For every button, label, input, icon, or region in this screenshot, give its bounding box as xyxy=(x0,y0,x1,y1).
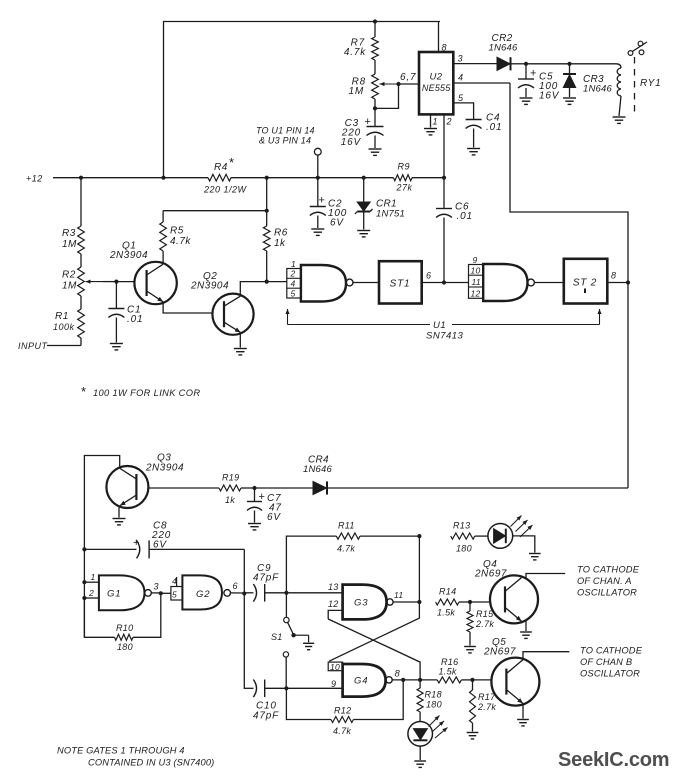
svg-text:OF CHAN B: OF CHAN B xyxy=(580,657,632,667)
node INPUT xyxy=(18,341,81,351)
svg-text:4.7k: 4.7k xyxy=(337,544,355,554)
svg-text:180: 180 xyxy=(117,642,133,652)
svg-text:8: 8 xyxy=(395,669,401,680)
wire ST2 node down to CR4 xyxy=(627,283,629,489)
svg-text:1: 1 xyxy=(291,259,297,269)
resistor R1 xyxy=(53,309,84,346)
wire R3-R2-R1 chain riser xyxy=(80,178,82,226)
resistor R16 xyxy=(437,657,474,683)
node +12 label xyxy=(26,174,43,184)
svg-text:.01: .01 xyxy=(457,211,473,222)
diode CR2 xyxy=(489,33,527,70)
zener CR1 xyxy=(355,178,405,230)
ground below C3 xyxy=(369,149,382,155)
ground below Q4 xyxy=(520,632,532,638)
resistor R4 xyxy=(203,155,248,195)
label chan A xyxy=(577,565,640,598)
nand gate U1b input pins 9,10,11,12 xyxy=(469,255,484,299)
svg-text:4.7k: 4.7k xyxy=(333,726,351,736)
wire Q4 emitter xyxy=(525,620,527,631)
transistor Q5 xyxy=(483,637,539,706)
ground below pin 1 xyxy=(424,129,437,135)
diode CR4 xyxy=(303,455,628,495)
wire G1 out node xyxy=(151,582,171,596)
svg-text:2N3904: 2N3904 xyxy=(145,463,184,474)
wire G3 out node xyxy=(393,590,421,604)
wire +12 rail xyxy=(53,176,446,180)
svg-text:+: + xyxy=(259,491,266,503)
wire Q1 emitter to Q2 base xyxy=(163,303,212,314)
ground below RY1 coil xyxy=(613,117,626,123)
ground below LED D2 xyxy=(414,761,426,767)
svg-text:2: 2 xyxy=(290,269,297,279)
LED D1 xyxy=(488,516,535,553)
capacitor C8 xyxy=(84,521,244,559)
cross wire G3out to G4 pin10 xyxy=(329,602,419,661)
resistor R15 xyxy=(467,602,494,646)
svg-text:+: + xyxy=(530,68,537,80)
svg-text:2N3904: 2N3904 xyxy=(109,250,148,261)
schmitt box ST2 xyxy=(564,259,608,304)
svg-text:5: 5 xyxy=(172,590,178,600)
dashed link RY1 xyxy=(634,57,636,112)
bracket U1 SN7413 xyxy=(285,309,601,342)
svg-text:220 1/2W: 220 1/2W xyxy=(203,185,248,195)
ground below C4 xyxy=(467,149,480,155)
svg-text:R18: R18 xyxy=(425,690,442,700)
relay coil RY1 xyxy=(616,64,661,116)
svg-text:R10: R10 xyxy=(116,623,133,633)
wire CR2 to relay node xyxy=(524,62,616,66)
svg-text:R5: R5 xyxy=(170,226,184,237)
svg-text:R15: R15 xyxy=(476,609,494,619)
svg-text:1M: 1M xyxy=(62,239,77,250)
ground for S1 xyxy=(303,643,314,649)
svg-text:& U3 PIN 14: & U3 PIN 14 xyxy=(259,136,311,146)
nand gate U1a input pins 1,2,4,5 xyxy=(287,259,301,298)
nand gate U1b body xyxy=(483,264,534,301)
wire U2 pin 8 riser xyxy=(438,22,440,53)
svg-text:3: 3 xyxy=(458,54,464,64)
svg-text:10: 10 xyxy=(471,266,481,276)
svg-text:1M: 1M xyxy=(349,86,365,97)
wire Q3 emitter xyxy=(118,507,120,518)
svg-text:4.7k: 4.7k xyxy=(344,47,366,58)
svg-text:5: 5 xyxy=(458,93,464,103)
svg-text:100 1W FOR LINK COR: 100 1W FOR LINK COR xyxy=(93,388,200,398)
svg-text:OSCILLATOR: OSCILLATOR xyxy=(580,669,640,679)
svg-text:1.5k: 1.5k xyxy=(439,667,457,677)
pin 4 of U2 xyxy=(453,73,510,84)
svg-text:11: 11 xyxy=(472,277,481,287)
svg-text:R1: R1 xyxy=(55,311,69,322)
ground below CR3 xyxy=(563,98,576,104)
pin 8 label xyxy=(442,43,448,53)
label 6,7 for U2 xyxy=(400,72,416,83)
ground below LED D1 xyxy=(529,554,541,560)
svg-text:6: 6 xyxy=(233,581,239,591)
svg-text:R13: R13 xyxy=(453,521,470,531)
wire Q2 emitter xyxy=(239,334,241,348)
nand gate G4 pin10 cell xyxy=(328,662,342,672)
svg-text:TO U1 PIN 14: TO U1 PIN 14 xyxy=(256,126,315,136)
resistor R2 (pot) xyxy=(62,267,119,309)
resistor R12 xyxy=(286,680,403,736)
ground below Q2 xyxy=(234,349,247,355)
ground below C5 xyxy=(520,98,533,104)
svg-text:6: 6 xyxy=(426,271,432,281)
note 100 1W xyxy=(81,384,200,399)
resistor R19 xyxy=(219,473,257,506)
svg-text:180: 180 xyxy=(456,544,472,554)
svg-text:6V: 6V xyxy=(153,540,167,551)
nand gate G2 xyxy=(171,575,231,609)
pin 1 of U2 xyxy=(431,114,439,127)
ground below R17 xyxy=(467,733,479,739)
wire U2 pin 4 to ST2 output node xyxy=(510,83,628,283)
svg-text:47pF: 47pF xyxy=(253,573,279,584)
svg-text:R19: R19 xyxy=(222,473,239,483)
svg-text:NOTE GATES 1 THROUGH 4: NOTE GATES 1 THROUGH 4 xyxy=(57,746,185,756)
wire left rail x84 xyxy=(82,547,86,637)
transistor Q4 xyxy=(474,559,538,623)
svg-text:1N751: 1N751 xyxy=(376,209,405,220)
nand gate G3 xyxy=(343,585,393,620)
svg-text:S1: S1 xyxy=(271,632,283,642)
svg-text:180: 180 xyxy=(426,700,442,710)
wire node A to G3 pin13 xyxy=(286,582,342,593)
svg-text:16V: 16V xyxy=(341,137,362,148)
svg-text:R2: R2 xyxy=(62,270,76,281)
svg-text:12: 12 xyxy=(471,289,481,299)
transistor Q1 xyxy=(109,241,177,305)
wire R16 to Q5 base xyxy=(473,679,492,681)
svg-text:SeekIC.com: SeekIC.com xyxy=(558,749,669,771)
nand gate G1 xyxy=(84,572,151,610)
svg-text:.01: .01 xyxy=(127,314,143,325)
capacitor C4 xyxy=(466,113,503,148)
ground below R15 xyxy=(464,647,476,653)
svg-text:6,7: 6,7 xyxy=(400,72,416,83)
svg-text:3: 3 xyxy=(154,582,160,592)
svg-text:R14: R14 xyxy=(439,587,456,597)
svg-text:4: 4 xyxy=(458,73,464,83)
resistor R6 xyxy=(263,178,287,284)
wire R14 to Q4 base xyxy=(470,601,490,603)
svg-text:6V: 6V xyxy=(267,512,281,523)
svg-text:+: + xyxy=(319,195,326,207)
svg-text:+: + xyxy=(133,537,140,549)
svg-text:2: 2 xyxy=(446,117,453,127)
wire G2 node vertical xyxy=(242,549,246,689)
svg-text:2N697: 2N697 xyxy=(474,569,507,580)
svg-text:9: 9 xyxy=(331,679,337,689)
svg-text:.01: .01 xyxy=(486,122,502,133)
svg-text:2N3904: 2N3904 xyxy=(190,281,229,292)
capacitor C9 xyxy=(244,563,288,602)
wire Q3 collector loop xyxy=(84,456,119,550)
resistor R13 xyxy=(451,521,488,554)
svg-text:1N646: 1N646 xyxy=(303,464,333,475)
svg-text:R6: R6 xyxy=(274,228,288,239)
wire Q5 collector xyxy=(523,652,569,660)
svg-text:R11: R11 xyxy=(338,521,355,531)
svg-text:OF CHAN. A: OF CHAN. A xyxy=(577,576,632,586)
ground below Q5 xyxy=(517,720,529,726)
svg-text:2: 2 xyxy=(88,588,95,598)
svg-text:1.5k: 1.5k xyxy=(437,608,455,618)
wire ST2 out node xyxy=(607,271,630,285)
wire top feed from +12 rail to U2 pin 8 xyxy=(164,19,441,177)
svg-text:+12: +12 xyxy=(26,174,43,184)
svg-text:27k: 27k xyxy=(396,183,413,193)
svg-text:2.7k: 2.7k xyxy=(475,619,494,629)
svg-text:*: * xyxy=(229,155,235,170)
capacitor C1 xyxy=(108,282,143,343)
svg-text:*: * xyxy=(81,384,87,399)
svg-text:1k: 1k xyxy=(274,238,286,249)
svg-text:2.7k: 2.7k xyxy=(477,702,496,712)
op-amp U2 NE555 box xyxy=(419,52,453,114)
svg-text:8: 8 xyxy=(442,43,448,53)
resistor R14 xyxy=(436,587,473,618)
transistor Q2 xyxy=(190,271,254,335)
svg-text:NE555: NE555 xyxy=(422,83,451,93)
svg-text:R12: R12 xyxy=(334,706,351,716)
label chan B xyxy=(580,646,643,679)
svg-text:TO CATHODE: TO CATHODE xyxy=(577,565,640,575)
svg-text:8: 8 xyxy=(611,271,617,281)
pin 12 stub of G3 xyxy=(328,599,343,619)
svg-text:G3: G3 xyxy=(354,598,368,609)
svg-text:1M: 1M xyxy=(62,281,77,292)
wire Q3 base to R19 xyxy=(148,487,219,489)
svg-text:R4: R4 xyxy=(214,162,228,173)
resistor R10 xyxy=(84,593,160,652)
capacitor C3 xyxy=(341,108,384,148)
svg-text:G2: G2 xyxy=(196,589,210,600)
svg-text:ST 2: ST 2 xyxy=(573,278,597,289)
svg-text:RY1: RY1 xyxy=(640,78,661,89)
cross wire G4out to G3 pin12 xyxy=(328,619,420,680)
svg-text:R16: R16 xyxy=(441,657,458,667)
resistor R3 xyxy=(62,226,84,267)
wire C7 to CR4 xyxy=(255,487,314,489)
svg-text:100k: 100k xyxy=(53,322,75,332)
ground below C1 xyxy=(110,344,123,350)
svg-text:OSCILLATOR: OSCILLATOR xyxy=(577,588,637,598)
svg-text:R9: R9 xyxy=(398,162,411,172)
resistor R8 (pot) xyxy=(349,74,420,111)
wire to gate1 inputs xyxy=(267,281,287,283)
svg-text:1k: 1k xyxy=(225,495,235,505)
svg-text:G4: G4 xyxy=(354,676,368,687)
node TO U1 PIN 14 terminal xyxy=(256,126,321,178)
switch S1 xyxy=(271,593,309,689)
watermark SeekIC.com xyxy=(558,749,669,771)
wire Q2 collector xyxy=(240,282,266,295)
wire R5 top to R6 rail xyxy=(163,209,269,213)
resistor R18 xyxy=(417,680,442,722)
wire G4 out node xyxy=(392,669,437,683)
wire R11R13 node to G3 out xyxy=(418,536,420,602)
wire gate1 out to ST1 xyxy=(353,282,379,284)
svg-text:16V: 16V xyxy=(539,91,560,102)
resistor R5 xyxy=(160,211,192,251)
svg-text:+: + xyxy=(365,116,372,128)
svg-text:U2: U2 xyxy=(430,72,443,83)
svg-text:U1: U1 xyxy=(433,320,446,331)
wire node B to G4 pin9 xyxy=(286,679,342,689)
svg-text:9: 9 xyxy=(473,255,479,265)
schmitt box ST1 xyxy=(379,261,422,303)
pin 3 of U2 xyxy=(453,54,497,64)
wire Q5 emitter xyxy=(522,704,524,719)
resistor R17 xyxy=(470,680,497,732)
svg-text:11: 11 xyxy=(394,590,403,600)
svg-text:CONTAINED IN U3 (SN7400): CONTAINED IN U3 (SN7400) xyxy=(88,758,214,768)
note gates xyxy=(57,746,214,768)
svg-text:G1: G1 xyxy=(107,589,121,600)
svg-text:47pF: 47pF xyxy=(253,711,279,722)
pin 5 of U2 xyxy=(453,93,473,120)
svg-text:10: 10 xyxy=(330,662,340,672)
transistor Q3 xyxy=(106,453,184,509)
svg-text:2N697: 2N697 xyxy=(483,647,516,658)
wire ST1 out node xyxy=(422,271,469,285)
resistor R9 xyxy=(394,162,413,193)
nand gate U1a body xyxy=(301,265,353,302)
svg-text:SN7413: SN7413 xyxy=(426,331,464,342)
svg-text:ST1: ST1 xyxy=(390,279,411,290)
pin 2 of U2 xyxy=(444,114,452,177)
resistor R7 xyxy=(344,22,378,75)
resistor R11 xyxy=(286,521,421,593)
capacitor C10 xyxy=(244,680,288,722)
wire Q1 collector xyxy=(162,251,164,264)
svg-text:4.7k: 4.7k xyxy=(170,236,191,247)
capacitor C6 xyxy=(436,178,473,283)
svg-text:1N646: 1N646 xyxy=(583,84,613,95)
svg-text:4: 4 xyxy=(291,279,297,289)
ground below Q3 xyxy=(113,519,126,525)
nand gate G4 xyxy=(343,664,393,697)
svg-text:6V: 6V xyxy=(330,218,344,229)
ground below C7 xyxy=(248,524,261,530)
svg-text:1: 1 xyxy=(91,572,97,582)
svg-text:13: 13 xyxy=(328,582,339,592)
capacitor C5 xyxy=(518,64,560,102)
wire G2 out node xyxy=(231,581,245,593)
wire Q4 collector xyxy=(526,574,565,579)
svg-text:1N646: 1N646 xyxy=(489,43,519,54)
svg-text:INPUT: INPUT xyxy=(18,341,49,351)
svg-text:R3: R3 xyxy=(62,228,76,239)
capacitor C7 xyxy=(247,488,282,523)
svg-text:1: 1 xyxy=(433,117,439,127)
wire gate2 out to ST2 xyxy=(534,282,563,284)
diode CR3 xyxy=(563,64,613,97)
capacitor C2 xyxy=(310,178,347,229)
svg-text:5: 5 xyxy=(291,288,297,298)
svg-text:12: 12 xyxy=(328,599,339,609)
ground below CR1 xyxy=(357,231,370,237)
svg-text:TO CATHODE: TO CATHODE xyxy=(580,646,643,656)
LED D2 xyxy=(408,716,448,761)
relay contact RY1 xyxy=(628,41,647,55)
ground below C2 xyxy=(311,229,324,235)
